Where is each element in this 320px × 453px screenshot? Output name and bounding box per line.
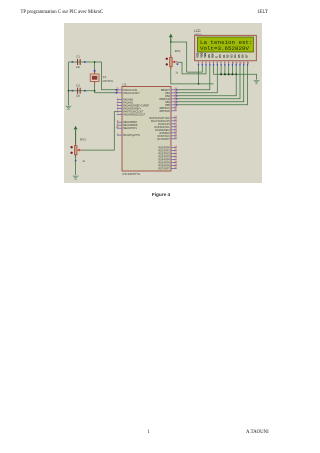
header title text [21,10,104,15]
svg-text:RC4/SDI/SDA: RC4/SDI/SDA [155,129,170,132]
LCD1 LM016L body [195,35,257,61]
wire RV2 bottom to ground [75,155,77,175]
U1 pin 37 RB4 [165,100,177,104]
U1 pin 39 RB6/PGC [160,106,178,110]
svg-text:RB5: RB5 [165,105,170,107]
svg-text:VDD: VDD [200,52,203,57]
wire LCD pin D1 to ground line [224,65,226,74]
LCD1 pin 4 RS [208,54,211,66]
U1 pin 33 RB0/INT [161,88,178,92]
U1 pin 23 RC4/SDI/SDA [155,128,177,132]
potentiometer RV1 [166,55,179,69]
wire LCD D4 to PIC [177,65,237,96]
schematic beige background [64,23,262,183]
svg-text:RD4/PSP4: RD4/PSP4 [159,160,171,162]
wire LCD pin D2 to ground line [228,65,230,74]
wire left rail vertical [68,62,70,105]
wire C2 line [69,90,95,92]
U1 pin 28 RD5/PSP5 [159,160,178,164]
node junction left rail / C2 [68,90,70,92]
node marker RB3 stub tip [176,98,177,99]
svg-text:RE1/AN6/WR: RE1/AN6/WR [123,124,138,127]
svg-text:RC2/CCP1: RC2/CCP1 [158,124,170,126]
power +5V arrow above RV1 [169,34,173,42]
LCD1 pin 3 VEE [204,52,207,65]
svg-text:U1: U1 [123,83,127,87]
U1 pin 7 RA5/AN4/SS/C2OUT [117,112,146,116]
svg-text:C1: C1 [76,55,80,59]
LCD1 pin 5 RW [212,53,215,65]
svg-text:RA0/AN0: RA0/AN0 [123,99,133,102]
LCD1 pin 7 D0 [219,54,222,66]
svg-text:RV1: RV1 [175,49,181,53]
LCD1 pin 14 D7 [246,54,250,66]
node marker RB1 stub tip [176,92,177,93]
svg-text:RD2/PSP2: RD2/PSP2 [159,154,171,156]
LCD1 pin 9 D2 [227,54,230,66]
U1 pin 4 RA2/AN2/VREF-/CVREF [117,103,150,107]
wire LCD pin D3 to ground line [231,65,233,74]
svg-text:LCD: LCD [194,29,201,33]
wire C1 top line [69,61,102,63]
U1 pin 9 RE1/AN6/WR [117,123,138,127]
svg-text:RA1/AN1: RA1/AN1 [123,102,133,105]
U1 pin 36 RB3/PGM [159,97,177,101]
svg-text:RB2: RB2 [165,96,170,98]
wire VSS drop [198,65,200,84]
svg-text:PIC16F877A: PIC16F877A [123,172,142,176]
U1 pin 8 RE0/AN5/RD [117,120,137,124]
footer author A.TAOUNI [246,430,269,435]
svg-text:22p: 22p [76,95,81,98]
wire LCD E to PIC [177,65,218,93]
node marker crystal top [94,70,96,72]
svg-text:RB6/PGC: RB6/PGC [160,108,171,110]
wire RV1 bottom to VSS line [171,67,214,84]
node marker OSC1 wire end [116,89,118,91]
wire LCD D6 to PIC [177,65,244,102]
LCD1 pin 6 E [215,56,218,66]
LCD1 pin 10 D3 [230,54,234,66]
wire LCD D7 to PIC [177,65,248,105]
LCD1 pin 11 D4 [234,54,238,66]
U1 pin 24 RC5/SDO [159,131,177,135]
svg-text:OSC1/CLKIN: OSC1/CLKIN [123,90,137,92]
node marker OSC2 wire end [116,92,118,94]
svg-text:VSS: VSS [197,52,200,57]
node junction VSS / RV1 bottom line [198,83,200,85]
wire OSC2 jog [95,91,117,93]
U1 pin 14 OSC2/CLKOUT [116,91,140,95]
svg-text:RA4/T0CKI/C1OUT: RA4/T0CKI/C1OUT [123,111,144,114]
node junction D3/ground line [231,73,233,75]
svg-text:RC7/RX/DT: RC7/RX/DT [158,139,171,141]
node junction C2/crystal [94,90,96,92]
LCD1 pin 1 VSS [197,52,200,65]
wire RV1 wiper to VEE route [178,62,206,74]
U1 pin 15 RC0/T1OSO/T1CKI [149,116,177,120]
U1 pin 27 RD4/PSP4 [159,157,178,161]
U1 pin 22 RD3/PSP3 [159,154,178,158]
svg-text:OSC2/CLKOUT: OSC2/CLKOUT [123,93,140,95]
U1 pin 3 RA1/AN1 [117,100,134,104]
node junction C1/crystal [94,61,96,63]
svg-text:RC6/TX/CK: RC6/TX/CK [158,136,171,138]
wire LCD pin D0 to ground line [220,65,222,74]
node junction D1/ground line [224,73,226,75]
node marker RB2 stub tip [176,95,177,96]
svg-text:VEE: VEE [204,52,207,57]
svg-text:RC1/T1OSI/CCP2: RC1/T1OSI/CCP2 [151,121,171,123]
op-amp U1 PIC16F877A body [122,87,171,172]
svg-text:RD5/PSP5: RD5/PSP5 [159,163,171,165]
svg-text:MCLR/Vpp/THV: MCLR/Vpp/THV [123,135,140,137]
ground symbol LCD [253,80,260,84]
U1 pin 26 RC7/RX/DT [158,137,178,141]
svg-text:RB7/PGD: RB7/PGD [160,111,171,113]
svg-text:RC0/T1OSO/T1CKI: RC0/T1OSO/T1CKI [149,118,170,120]
U1 pin 6 RA4/T0CKI/C1OUT [117,109,144,113]
svg-text:RD0/PSP0: RD0/PSP0 [159,148,171,150]
U1 pin 30 RD7/PSP7 [159,166,178,170]
node marker RB0 stub tip [176,89,177,90]
svg-text:RE2/AN7/CS: RE2/AN7/CS [123,127,137,130]
U1 pin 34 RB1 [165,91,177,95]
U1 pin 1 MCLR/Vpp/THV [117,133,141,137]
crystal X1 [90,70,99,84]
svg-text:22p: 22p [76,66,81,69]
U1 pin 5 RA3/AN3/VREF+ [117,106,142,110]
wire OSC1 riser [102,62,117,90]
power +5V arrow above RV2 [74,126,78,144]
svg-text:RS: RS [208,54,211,58]
svg-text:RC5/SDO: RC5/SDO [159,133,170,135]
svg-text:RB1: RB1 [165,93,170,95]
U1 pin 18 RC3/SCK/SCL [155,125,178,129]
svg-text:X1: X1 [103,75,107,79]
capacitor C2 [72,88,86,94]
svg-text:RB3/PGM: RB3/PGM [159,99,170,101]
U1 pin 29 RD6/PSP6 [159,163,178,167]
wire crystal branch vertical [94,62,96,91]
node junction RV1 top / VDD feed [170,41,172,43]
svg-text:RB4: RB4 [165,102,170,104]
U1 pin 10 RE2/AN7/CS [116,126,138,130]
svg-text:RD7/PSP7: RD7/PSP7 [159,169,171,171]
LCD1 pin 13 D6 [242,54,246,66]
U1 pin 38 RB5 [165,103,177,107]
U1 pin 21 RD2/PSP2 [159,151,178,155]
wire RV2 wiper to PIC RA3 [83,112,117,151]
page number footer [148,430,150,435]
wire RV1 top terminal [170,42,172,57]
svg-text:RC3/SCK/SCL: RC3/SCK/SCL [155,127,171,129]
U1 pin 40 RB7/PGD [160,109,178,113]
U1 pin 17 RC2/CCP1 [158,122,177,126]
U1 pin 25 RC6/TX/CK [158,134,178,138]
svg-text:RA2/AN2/VREF-/CVREF: RA2/AN2/VREF-/CVREF [123,105,149,108]
LCD1 screen [198,37,254,52]
capacitor C1 [72,59,86,65]
svg-text:RD1/PSP1: RD1/PSP1 [159,151,171,153]
node marker RB5 stub tip [176,104,177,105]
svg-text:CRYSTAL: CRYSTAL [103,80,114,83]
svg-text:RA3/AN3/VREF+: RA3/AN3/VREF+ [123,108,142,111]
U1 pin 19 RD0/PSP0 [159,145,178,149]
U1 pin 16 RC1/T1OSI/CCP2 [151,119,178,123]
LCD1 pin 2 VDD [200,52,203,65]
svg-text:RA5/AN4/SS/C2OUT: RA5/AN4/SS/C2OUT [123,114,146,117]
svg-text:RV2: RV2 [80,138,86,142]
wire VDD route to LCD [171,42,203,72]
U1 pin 20 RD1/PSP1 [159,148,178,152]
U1 pin 2 RA0/AN0 [117,97,134,101]
svg-text:RD6/PSP6: RD6/PSP6 [159,166,171,168]
wire LCD D5 to PIC [177,65,241,99]
LCD1 pin 8 D1 [223,54,226,66]
node junction D0/ground line [220,73,222,75]
U1 pin 35 RB2 [165,94,177,98]
wire RW ground line with corner to LCD ground [214,65,257,79]
wire LCD RS to PIC [177,65,210,90]
svg-text:C2: C2 [76,83,80,87]
svg-text:RE0/AN5/RD: RE0/AN5/RD [123,121,137,124]
header class label 1ELT [257,10,268,15]
U1 pin 13 OSC1/CLKIN [116,88,138,92]
node junction D4 crossing ground line [235,73,237,75]
LCD1 pin 12 D5 [238,54,242,66]
node junction D2/ground line [228,73,230,75]
node marker RB4 stub tip [176,101,177,102]
ground symbol left rail [65,106,72,110]
svg-text:Volt=3.652829V: Volt=3.652829V [200,45,250,52]
svg-text:RB0/INT: RB0/INT [161,90,171,92]
figure caption Figure 4 [134,192,188,197]
ground symbol RV2 [72,176,79,180]
potentiometer RV2 [70,143,82,161]
svg-text:RD3/PSP3: RD3/PSP3 [159,157,171,159]
